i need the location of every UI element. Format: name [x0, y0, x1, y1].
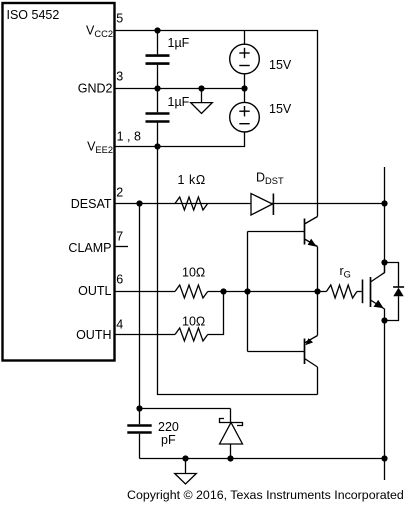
wire OUTH riser to OUTL node: [208, 292, 224, 335]
wire GND2 pin3: [115, 88, 245, 90]
svg-text:220: 220: [158, 420, 179, 434]
junction emitters-rG: [314, 288, 320, 294]
diode D3 zener clamp: [220, 409, 243, 459]
svg-text:ISO 5452: ISO 5452: [7, 8, 60, 22]
resistor R4 rG gate: [326, 285, 357, 298]
wire OUTL node to rG: [208, 291, 327, 293]
transistor Q2 PNP lower: [305, 336, 318, 368]
junction DESAT-blanking: [136, 200, 142, 206]
svg-text:GND2: GND2: [78, 82, 113, 96]
wire Q1 base: [248, 231, 305, 233]
wire bottom emitter return: [140, 458, 385, 460]
wire IGBT emitter rail bottom: [384, 309, 386, 480]
junction VCC2-C1: [154, 27, 160, 33]
junction bottom-rail: [381, 455, 387, 461]
wire CLAMP pin7 stub: [115, 246, 129, 248]
wire VEE rail x157 down to PNP collector: [158, 122, 318, 395]
resistor R2 10Ohm OUTL: [175, 285, 208, 298]
wire OUTH pin4 to 10ohm: [115, 334, 176, 336]
ground GND2 symbol: [191, 89, 213, 114]
svg-text:10Ω: 10Ω: [182, 265, 205, 279]
wire DESAT pin2: [115, 203, 385, 205]
svg-text:Copyright © 2016, Texas Instru: Copyright © 2016, Texas Instruments Inco…: [127, 488, 404, 502]
wire rG to IGBT gate: [357, 291, 362, 293]
diode D2 freewheel: [385, 263, 405, 321]
wire 220pF bottom lead: [139, 434, 141, 459]
source B2 15V: [230, 102, 260, 132]
svg-text:OUTH: OUTH: [76, 328, 111, 342]
resistor R1 1kOhm: [175, 197, 208, 210]
svg-text:2: 2: [116, 186, 123, 200]
svg-text:1 , 8: 1 , 8: [117, 130, 141, 144]
svg-text:1µF: 1µF: [168, 36, 190, 50]
wire VEE2 pin1,8: [115, 132, 245, 147]
junction GND2-C1C2: [154, 85, 160, 91]
junction blanking-zener: [136, 405, 142, 411]
junction GND2-ground: [198, 85, 204, 91]
wire bases vertical: [247, 232, 249, 352]
wire decoupling rail x157 mid: [157, 65, 159, 113]
wire VCC2 pin5 to top-right corner: [115, 31, 318, 217]
source B1 15V: [230, 44, 260, 74]
svg-text:10Ω: 10Ω: [182, 314, 205, 328]
diode D1 DDST: [251, 194, 273, 216]
capacitor C2 1uF plates: [146, 114, 170, 122]
IC U1 ISO 5452 box: [3, 3, 115, 361]
svg-text:DESAT: DESAT: [71, 197, 112, 211]
capacitor C1 1uF plates: [146, 56, 170, 64]
svg-text:4: 4: [116, 318, 123, 332]
svg-text:OUTL: OUTL: [78, 284, 111, 298]
ground bottom symbol: [175, 459, 197, 485]
junction DESAT-rail: [381, 200, 387, 206]
wire IGBT collector rail top stub: [384, 167, 386, 273]
svg-text:CLAMP: CLAMP: [68, 241, 111, 255]
svg-text:7: 7: [116, 230, 123, 244]
wire decoupling rail x157 top: [157, 31, 159, 55]
junction OUTL-bases: [244, 288, 250, 294]
svg-text:6: 6: [116, 273, 123, 287]
junction zener-bottom: [227, 455, 233, 461]
svg-text:pF: pF: [161, 433, 176, 447]
junction OUTL-OUTH: [220, 288, 226, 294]
transistor Q3 IGBT: [363, 263, 385, 310]
wire B1-B2 link: [244, 74, 246, 103]
resistor R3 10Ohm OUTH: [175, 328, 208, 341]
wire DESAT blanking branch x139: [139, 204, 141, 425]
junction IGBT collector-diode: [381, 259, 387, 265]
wire emitters vertical: [317, 247, 319, 336]
junction VEE2-C2: [154, 143, 160, 149]
wire Q2 base: [248, 351, 305, 353]
svg-text:5: 5: [116, 12, 123, 26]
capacitor C3 220pF plates: [127, 426, 151, 433]
svg-text:15V: 15V: [269, 102, 292, 116]
junction bottom-ground: [182, 455, 188, 461]
svg-text:1 kΩ: 1 kΩ: [178, 173, 206, 187]
svg-text:15V: 15V: [269, 58, 292, 72]
wire B1 top lead: [244, 31, 246, 45]
wire OUTL pin6 to 10ohm: [115, 291, 176, 293]
svg-text:3: 3: [116, 70, 123, 84]
junction GND2-sources: [241, 85, 247, 91]
svg-text:1µF: 1µF: [168, 95, 190, 109]
junction IGBT emitter-diode: [381, 317, 387, 323]
transistor Q1 NPN upper: [305, 217, 318, 247]
wire Q2 collector to VEE: [317, 367, 319, 395]
wire blanking node to zener: [140, 408, 231, 410]
